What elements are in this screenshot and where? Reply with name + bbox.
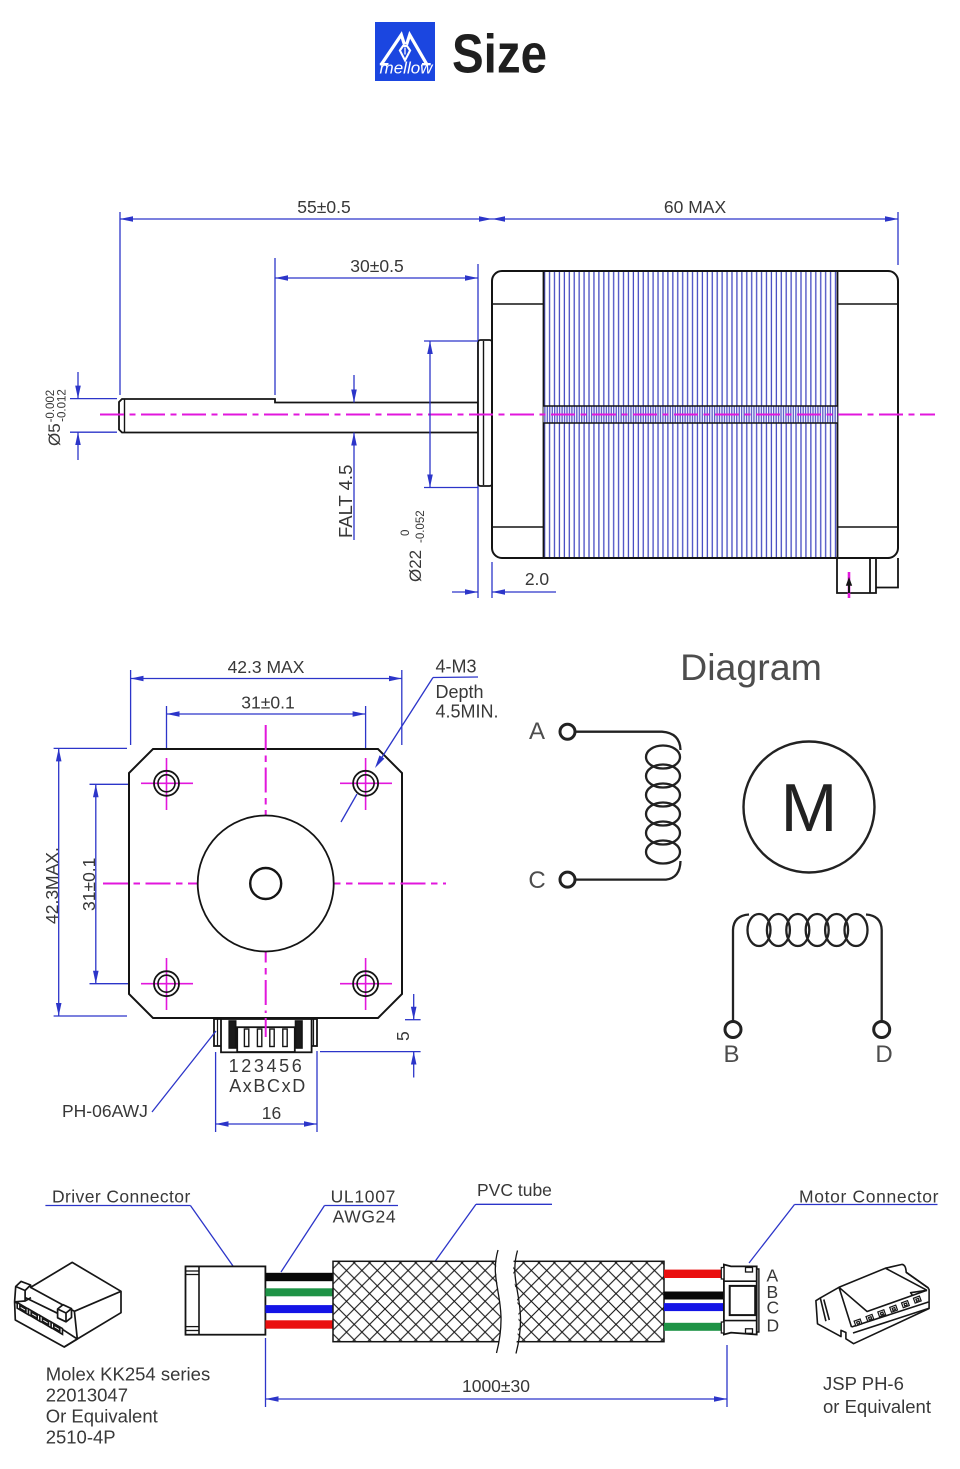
svg-text:Molex KK254 series: Molex KK254 series (46, 1364, 211, 1385)
wire red motor (664, 1270, 725, 1278)
svg-text:Size: Size (452, 23, 547, 85)
dimension 5 (320, 994, 421, 1078)
terminal D (874, 1022, 890, 1038)
svg-text:Motor Connector: Motor Connector (799, 1187, 939, 1207)
svg-text:-0.012: -0.012 (57, 389, 69, 422)
svg-text:Ø5: Ø5 (45, 423, 64, 446)
svg-text:AxBCxD: AxBCxD (229, 1076, 307, 1096)
dimension Ø5 (70, 372, 117, 460)
mounting hole TR (340, 758, 392, 810)
pilot circle (198, 816, 334, 952)
phase coil B-D (733, 914, 882, 1022)
svg-text:31±0.1: 31±0.1 (241, 693, 294, 713)
PVC tube braided sleeve (333, 1261, 664, 1341)
svg-text:Ø22: Ø22 (406, 550, 425, 582)
cap separator lines (543, 271, 545, 558)
svg-text:16: 16 (262, 1103, 281, 1123)
svg-text:Diagram: Diagram (680, 646, 822, 688)
dimension FALT 4.5 (353, 375, 355, 540)
svg-text:123456: 123456 (229, 1056, 305, 1076)
center crosshair (103, 883, 446, 885)
CABLE (15, 1180, 939, 1448)
shaft end facet line (124, 399, 126, 433)
svg-text:4-M3: 4-M3 (436, 657, 477, 677)
dimension 55±0.5 (120, 212, 492, 395)
motor body side view (492, 271, 898, 558)
svg-text:0: 0 (400, 530, 412, 536)
svg-text:60 MAX: 60 MAX (664, 197, 727, 217)
svg-text:42.3 MAX: 42.3 MAX (228, 657, 305, 677)
svg-text:D: D (875, 1041, 892, 1068)
terminal B (725, 1022, 741, 1038)
svg-text:2.0: 2.0 (525, 569, 550, 589)
driver connector 3D pin holes (17, 1303, 62, 1335)
FRONT VIEW (42, 657, 499, 1133)
dimension 42.3 MAX (131, 670, 402, 745)
mounting hole TL (141, 758, 193, 810)
svg-text:D: D (767, 1316, 780, 1336)
dimension 42.3MAX. vertical (54, 748, 127, 1016)
front boss (478, 340, 492, 486)
svg-text:2510-4P: 2510-4P (46, 1427, 116, 1448)
front plate (129, 749, 402, 1018)
svg-text:55±0.5: 55±0.5 (297, 197, 350, 217)
dimension 60 MAX (492, 212, 898, 265)
wire green motor (664, 1323, 725, 1331)
svg-text:A: A (529, 718, 545, 745)
wire red driver (265, 1320, 333, 1328)
svg-text:UL1007: UL1007 (331, 1187, 397, 1207)
driver connector 3D (15, 1262, 121, 1347)
dimension Ø22 (424, 341, 478, 488)
DIAGRAM (528, 646, 892, 1068)
svg-text:30±0.5: 30±0.5 (350, 256, 403, 276)
svg-text:FALT 4.5: FALT 4.5 (335, 465, 356, 538)
logo mellow (375, 22, 435, 81)
svg-text:B: B (723, 1041, 739, 1068)
front connector (214, 1019, 317, 1052)
connector pin marker (848, 572, 851, 598)
wire black motor (664, 1292, 725, 1300)
mounting hole BL (141, 958, 193, 1010)
rear connector tab (837, 558, 898, 593)
dimension 31±0.1 horizontal (167, 706, 366, 778)
svg-text:AWG24: AWG24 (333, 1207, 397, 1227)
centerline (100, 414, 935, 416)
phase coil A-C (576, 732, 681, 880)
svg-text:mellow: mellow (380, 59, 435, 78)
svg-text:PH-06AWJ: PH-06AWJ (62, 1101, 148, 1121)
svg-text:31±0.1: 31±0.1 (79, 858, 99, 911)
svg-text:-0.002: -0.002 (45, 390, 57, 423)
svg-text:1000±30: 1000±30 (462, 1376, 530, 1396)
tube break (505, 1249, 510, 1354)
svg-text:PVC tube: PVC tube (477, 1180, 552, 1200)
dimension 1000±30 (266, 1338, 728, 1407)
wire black driver (265, 1273, 333, 1281)
svg-text:C: C (767, 1298, 780, 1318)
lamination stripes (544, 272, 838, 557)
svg-text:-0.052: -0.052 (415, 510, 427, 543)
SIDE VIEW (45, 197, 935, 598)
svg-text:M: M (781, 770, 838, 846)
svg-text:Or Equivalent: Or Equivalent (46, 1406, 158, 1427)
dimension 2.0 (452, 562, 556, 598)
svg-text:Depth: Depth (436, 682, 484, 702)
motor symbol M (744, 742, 875, 873)
svg-text:4.5MIN.: 4.5MIN. (436, 702, 499, 722)
shaft (119, 399, 478, 433)
wire green driver (265, 1288, 333, 1296)
middle band (544, 407, 838, 423)
svg-text:5: 5 (393, 1031, 413, 1041)
svg-text:42.3MAX.: 42.3MAX. (42, 847, 62, 924)
driver connector housing 2D (186, 1266, 266, 1334)
wire blue driver (265, 1305, 333, 1313)
dimension 30±0.5 (275, 258, 478, 598)
svg-text:22013047: 22013047 (46, 1385, 128, 1406)
svg-text:JSP PH-6: JSP PH-6 (823, 1373, 904, 1394)
svg-text:or Equivalent: or Equivalent (823, 1396, 931, 1417)
svg-text:C: C (528, 867, 545, 894)
mounting hole BR (340, 958, 392, 1010)
motor connector 3D (816, 1264, 929, 1343)
wire blue motor (664, 1303, 725, 1311)
shaft circle (250, 868, 281, 899)
motor connector 3D pins (854, 1296, 921, 1326)
motor connector housing 2D (721, 1265, 759, 1335)
svg-text:Driver Connector: Driver Connector (52, 1187, 191, 1207)
dimension 31±0.1 vertical (90, 784, 143, 983)
